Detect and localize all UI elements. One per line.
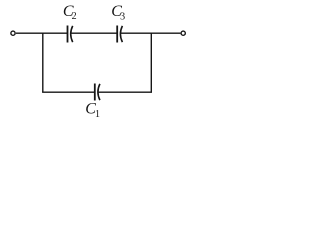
wire: right vertical (150, 33, 152, 92)
label C1 (85, 100, 100, 120)
svg-text:1: 1 (95, 109, 100, 120)
wire: C3 to right terminal (121, 32, 180, 34)
wire: left terminal to C2 (16, 32, 67, 34)
svg-text:3: 3 (120, 11, 125, 22)
wire: C1 to bottom-right (98, 91, 152, 93)
capacitor C3 (117, 26, 122, 43)
capacitor C2 (68, 26, 73, 43)
label C3 (111, 3, 125, 22)
right terminal (181, 31, 185, 35)
wire: C2 to C3 (71, 32, 117, 34)
svg-text:2: 2 (72, 11, 77, 22)
wire: left vertical (42, 33, 44, 92)
label C2 (63, 3, 77, 22)
wire: bottom-left to C1 (42, 91, 94, 93)
left terminal (11, 31, 15, 35)
capacitor C1 (95, 84, 100, 101)
